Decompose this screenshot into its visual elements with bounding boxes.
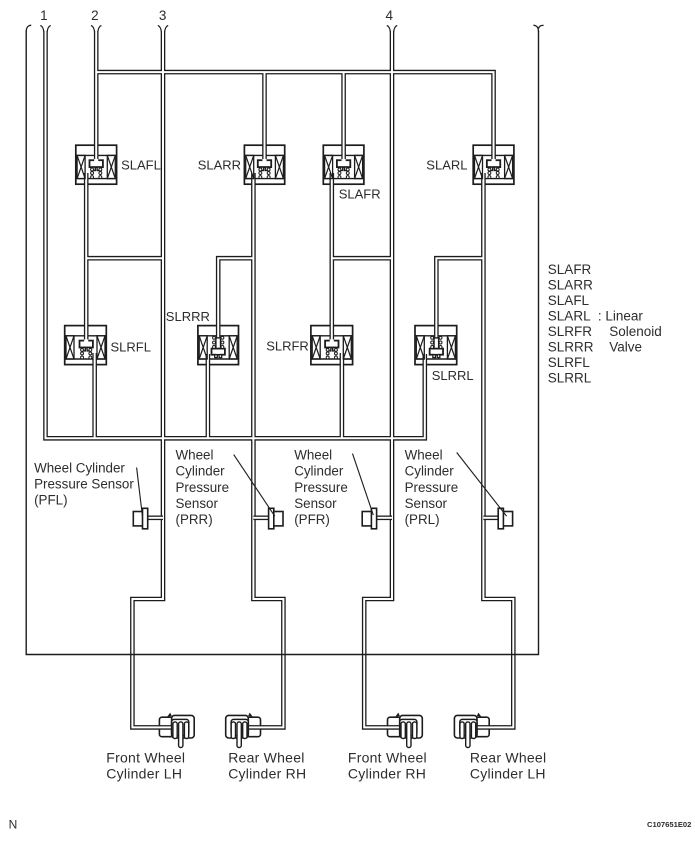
valve SLAFL V1 coils, plunger, dots	[77, 155, 115, 178]
wire channel: wire 4 to cylinder FR	[364, 31, 400, 727]
wheel cylinder 2 (Rear RH) collar, ribs, pin, arrow	[231, 713, 253, 748]
svg-text:SLAFL: SLAFL	[548, 293, 590, 308]
svg-text:Pressure: Pressure	[405, 480, 459, 495]
svg-text:SLRFR: SLRFR	[548, 324, 593, 339]
svg-text:SLRRR: SLRRR	[548, 339, 594, 354]
wire: SLARL output line to cylinder RL	[476, 173, 513, 727]
wire channel: SLARR input drop	[264, 72, 266, 161]
svg-text:SLARL: SLARL	[548, 308, 591, 323]
pressure sensor PRL	[483, 508, 512, 529]
terminal flares ports 1-4	[40, 25, 44, 31]
wire: SLAFL output to SLRFL input	[84, 173, 89, 342]
svg-text:C107651E02: C107651E02	[647, 820, 691, 829]
wire: wire 3 to cylinder FL	[132, 31, 172, 727]
wire channel: SLARL output line to cylinder RL	[476, 173, 513, 727]
valve SLRFL V5 coils, plunger, dots	[66, 336, 105, 359]
svg-text:SLRFL: SLRFL	[548, 355, 591, 370]
svg-text:Cylinder: Cylinder	[405, 464, 455, 479]
valve SLRRL V8 coils, plunger, dots	[416, 336, 455, 359]
valve SLARR V2 coils, plunger, dots	[246, 155, 284, 178]
wire: wire 1 + return bus + SLRRL output	[46, 31, 425, 438]
wire: SLAFR input drop	[341, 72, 346, 161]
svg-text:Pressure: Pressure	[176, 480, 230, 495]
wire channel: wire 3 to cylinder FL	[132, 31, 172, 727]
svg-text:SLAFR: SLAFR	[548, 262, 592, 277]
svg-text:4: 4	[385, 8, 393, 23]
svg-text:Cylinder RH: Cylinder RH	[228, 766, 306, 782]
wheel cylinder 1 (Front LH) collar, ribs, pin, arrow	[167, 713, 189, 748]
wire: link SLAFR-line to wire 4	[332, 256, 392, 261]
leader PRL	[457, 453, 507, 517]
wire white channels	[46, 31, 514, 727]
svg-text:SLRFR: SLRFR	[266, 339, 309, 354]
svg-text:SLRRR: SLRRR	[166, 309, 210, 324]
svg-text:SLAFL: SLAFL	[121, 157, 161, 172]
svg-text:SLRRL: SLRRL	[432, 368, 474, 383]
wire: link SLARR-line to SLRRR input	[218, 258, 253, 338]
wire channel: SLRRR output to return bus	[207, 354, 209, 438]
svg-text:SLARR: SLARR	[198, 157, 241, 172]
valve SLARL V4 body	[473, 145, 514, 184]
svg-text:Front Wheel: Front Wheel	[106, 749, 185, 765]
wire channel: SLAFR input drop	[343, 72, 345, 161]
wire channel: link SLARL-line to SLRRL input	[436, 258, 483, 337]
svg-text:Sensor: Sensor	[405, 496, 448, 511]
valve SLRRL V8 body	[415, 326, 457, 365]
wheel cylinder 4 (Rear LH) flange+body	[454, 715, 489, 738]
svg-text:SLRFL: SLRFL	[111, 340, 151, 355]
svg-text:(PFL): (PFL)	[34, 493, 67, 508]
leader PFR	[353, 454, 374, 515]
svg-text:Cylinder LH: Cylinder LH	[106, 766, 182, 782]
wheel cylinder 2 (Rear RH) flange+body	[226, 715, 261, 738]
pressure sensor PFL	[133, 508, 163, 529]
pressure sensor PRR	[253, 508, 283, 529]
wire black outlines	[46, 31, 514, 727]
valve SLRFL V5 body	[65, 326, 107, 365]
svg-text:Pressure Sensor: Pressure Sensor	[34, 477, 134, 492]
wire: SLRRR output to return bus	[206, 354, 211, 438]
hydraulic unit border box	[26, 31, 538, 655]
wire: SLAFR output to SLRFR input	[329, 173, 334, 342]
wire: SLRFR output to return bus	[340, 353, 345, 438]
svg-text:Sensor: Sensor	[176, 496, 219, 511]
wire: link SLARL-line to SLRRL input	[436, 258, 483, 337]
svg-text:Cylinder RH: Cylinder RH	[348, 766, 426, 782]
svg-text:Cylinder: Cylinder	[294, 464, 344, 479]
leader PFL	[137, 468, 143, 516]
wheel cylinder 3 (Front RH) collar, ribs, pin, arrow	[395, 713, 417, 748]
wire: SLRFL output to return bus	[92, 353, 97, 438]
wire channel: SLRFL output to return bus	[94, 353, 96, 438]
valve SLARR V2 body	[244, 145, 284, 184]
wire: SLARR input drop	[262, 72, 267, 161]
valve SLAFL V1 body	[76, 145, 117, 184]
wire: wire 4 to cylinder FR	[364, 31, 400, 727]
svg-text:N: N	[9, 818, 18, 832]
svg-text:Rear Wheel: Rear Wheel	[470, 749, 546, 765]
svg-text:SLAFR: SLAFR	[339, 187, 381, 202]
svg-text:Cylinder: Cylinder	[176, 464, 226, 479]
wire channel: wire 2 into SLAFL	[95, 31, 97, 161]
valve SLRFR V7 body	[311, 326, 353, 365]
wheel cylinder 1 (Front LH) flange+body	[159, 715, 194, 738]
svg-text:Cylinder LH: Cylinder LH	[470, 766, 546, 782]
svg-text:Valve: Valve	[609, 339, 642, 354]
svg-text:Solenoid: Solenoid	[609, 324, 662, 339]
wire: SLARR output line to cylinder RR	[247, 173, 283, 727]
svg-text:SLRRL: SLRRL	[548, 370, 592, 385]
svg-text:(PFR): (PFR)	[294, 512, 330, 527]
svg-text:Wheel: Wheel	[294, 447, 332, 462]
wire channel: SLAFR output to SLRFR input	[331, 173, 333, 342]
svg-text:SLARR: SLARR	[548, 277, 593, 292]
wire channel: wire 1 + return bus + SLRRL output	[46, 31, 425, 438]
wire channel: link SLAFL-line to wire 3	[86, 257, 163, 259]
valve SLRRR V6 body	[198, 326, 239, 365]
wire channel: link SLAFR-line to wire 4	[332, 257, 392, 259]
valve SLRRR V6 coils, plunger, dots	[199, 336, 237, 359]
wire: link SLAFL-line to wire 3	[86, 256, 163, 261]
wire channel: SLAFL output to SLRFL input	[85, 173, 87, 342]
svg-text:(PRL): (PRL)	[405, 512, 440, 527]
svg-text:3: 3	[159, 8, 167, 23]
valve SLAFR V3 coils, plunger, dots	[325, 155, 363, 178]
wire: wire 2 into SLAFL	[94, 31, 99, 161]
svg-text:Wheel: Wheel	[176, 447, 214, 462]
wire channel: link SLARR-line to SLRRR input	[218, 258, 253, 338]
valve SLRFR V7 coils, plunger, dots	[312, 336, 351, 359]
svg-text:Wheel Cylinder: Wheel Cylinder	[34, 460, 125, 475]
svg-text:: Linear: : Linear	[598, 308, 644, 323]
leader PRR	[234, 455, 275, 517]
wheel cylinder 4 (Rear LH) collar, ribs, pin, arrow	[460, 713, 482, 748]
svg-text:Sensor: Sensor	[294, 496, 337, 511]
svg-text:Wheel: Wheel	[405, 447, 443, 462]
svg-text:Pressure: Pressure	[294, 480, 348, 495]
svg-text:1: 1	[40, 8, 48, 23]
pressure sensor PFR	[362, 508, 392, 529]
wheel cylinder 3 (Front RH) flange+body	[388, 715, 423, 738]
wire channel: SLARR output line to cylinder RR	[247, 173, 283, 727]
wire channel: supply bus + SLARL input	[96, 72, 493, 161]
valve SLAFR V3 body	[323, 145, 364, 184]
wire: supply bus + SLARL input	[96, 72, 493, 161]
svg-text:Rear Wheel: Rear Wheel	[228, 749, 304, 765]
svg-text:Front Wheel: Front Wheel	[348, 749, 427, 765]
svg-text:SLARL: SLARL	[426, 158, 467, 173]
svg-text:(PRR): (PRR)	[176, 512, 213, 527]
valve SLARL V4 coils, plunger, dots	[475, 155, 513, 178]
wire channel: SLRFR output to return bus	[341, 353, 343, 438]
svg-text:2: 2	[91, 8, 99, 23]
